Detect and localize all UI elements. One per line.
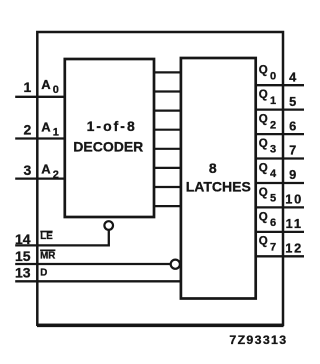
svg-text:1-of-8: 1-of-8 [87,118,137,134]
svg-text:7: 7 [289,143,296,158]
svg-text:1: 1 [24,79,32,95]
svg-text:11: 11 [286,216,303,231]
svg-text:15: 15 [15,248,31,264]
svg-text:DECODER: DECODER [73,138,143,154]
svg-text:LE: LE [40,231,53,242]
svg-text:7Z93313: 7Z93313 [229,333,287,347]
svg-text:LATCHES: LATCHES [186,179,251,195]
svg-text:6: 6 [289,118,296,133]
svg-text:9: 9 [289,167,296,182]
svg-text:10: 10 [285,192,303,207]
svg-text:D: D [40,267,47,278]
svg-text:12: 12 [285,241,303,256]
svg-text:14: 14 [15,231,31,247]
svg-text:3: 3 [24,162,32,178]
svg-text:13: 13 [15,264,31,280]
svg-text:5: 5 [289,94,296,109]
svg-text:2: 2 [24,121,32,137]
svg-text:4: 4 [289,69,297,84]
svg-text:8: 8 [209,160,217,176]
svg-text:MR: MR [40,250,55,261]
